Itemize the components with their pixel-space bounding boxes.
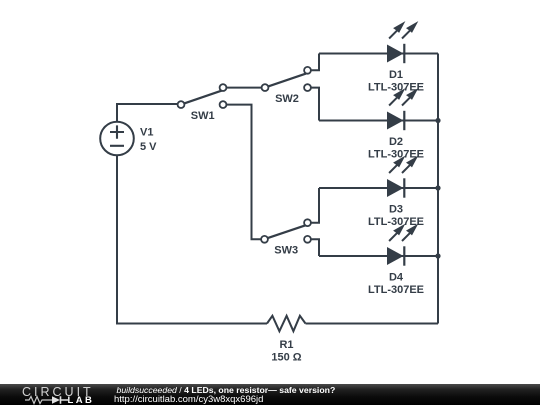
svg-text:R1: R1 xyxy=(279,339,293,351)
resistor R1 xyxy=(267,316,306,331)
voltage source V1 xyxy=(100,122,134,156)
LED D2 xyxy=(387,88,418,130)
wire LED D3 row xyxy=(319,187,438,189)
wire SW3 top throw to LED D3 xyxy=(308,188,320,223)
svg-text:D2: D2 xyxy=(389,136,403,148)
wire LED D4 row xyxy=(319,255,438,257)
LED D3 xyxy=(387,156,418,198)
switch SW1 xyxy=(178,84,227,108)
switch SW2 xyxy=(262,67,311,91)
svg-text:V1: V1 xyxy=(140,127,153,139)
svg-text:D4: D4 xyxy=(389,272,404,284)
node junction D4-bus xyxy=(435,253,440,258)
svg-text:SW2: SW2 xyxy=(275,93,299,105)
LED D1 xyxy=(387,21,418,63)
CircuitLab footer bar xyxy=(0,384,540,405)
svg-text:150 Ω: 150 Ω xyxy=(271,352,301,364)
wire V1 bottom to resistor R1 left xyxy=(117,156,267,324)
node junction D3-bus xyxy=(435,185,440,190)
switch SW3 xyxy=(261,219,311,242)
LED D4 xyxy=(387,224,418,266)
wire LED D1 row xyxy=(319,53,438,55)
svg-text:D1: D1 xyxy=(389,69,403,81)
wire resistor R1 right to right bus xyxy=(306,323,439,325)
svg-text:LTL-307EE: LTL-307EE xyxy=(368,284,424,296)
wire SW1 top throw to SW2 common xyxy=(223,87,265,89)
svg-text:D3: D3 xyxy=(389,204,403,216)
wire SW2 bottom throw to LED D2 xyxy=(308,88,320,121)
wire SW3 bottom throw to LED D4 xyxy=(308,239,320,256)
svg-text:SW3: SW3 xyxy=(274,245,298,257)
wire SW1 bottom throw to SW3 common xyxy=(223,105,265,240)
svg-text:5 V: 5 V xyxy=(140,141,157,153)
wire SW2 top throw to LED D1 xyxy=(308,54,320,71)
node junction D2-bus xyxy=(435,118,440,123)
svg-text:SW1: SW1 xyxy=(191,110,215,122)
wire V1 top to SW1 common xyxy=(117,104,181,122)
wire LED D2 row xyxy=(319,120,438,122)
wire right bus xyxy=(437,54,439,324)
